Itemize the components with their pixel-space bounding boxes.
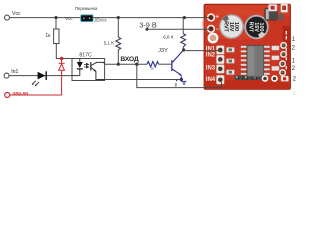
diode D1 SMD top right [265, 8, 283, 20]
svg-text:ВХОД: ВХОД [120, 56, 138, 63]
wire: second rail to PCB minus [147, 28, 211, 30]
wire: 6.8k branch from rail [182, 18, 184, 34]
red diode branch: node dot [60, 57, 64, 61]
IC U1 driver chip [241, 45, 270, 77]
svg-text:J3Y: J3Y [158, 48, 168, 54]
wire B: opto emitter to transistor emitter [105, 79, 182, 81]
svg-text:In1: In1 [11, 69, 18, 75]
node: dot at start of second rail [145, 28, 148, 31]
node: emitter junction dot [180, 78, 183, 81]
terminal Vcc [5, 15, 10, 20]
capacitor C2 electrolytic black [244, 15, 268, 39]
svg-text:2: 2 [292, 66, 296, 72]
svg-text:1к: 1к [45, 33, 51, 39]
wire: base resistor to transistor [159, 63, 172, 65]
wire: top Vcc rail [9, 17, 211, 19]
svg-text:1: 1 [292, 58, 296, 64]
wire: In1 line [9, 75, 72, 77]
wire: collector to PCB IN1 pad [184, 50, 219, 52]
node: dot 5.1k on wire A [117, 63, 120, 66]
resistor base zigzag [147, 62, 159, 67]
PCB hole centers redrawn over wires [209, 16, 213, 20]
resistor 6.8k zigzag [181, 34, 186, 48]
svg-text:JDVcc: JDVcc [94, 17, 107, 22]
terminal GND.AN red [5, 93, 10, 98]
svg-text:5,1 К: 5,1 К [104, 41, 115, 46]
svg-text:2: 2 [293, 77, 297, 83]
svg-text:IN3: IN3 [206, 66, 216, 72]
node: junction dot 5.1k on rail [117, 16, 120, 19]
PCB right edge silk marks [286, 31, 287, 69]
PCB board module [202, 4, 291, 89]
jumper block [81, 15, 93, 22]
capacitor C1 electrolytic silver [219, 14, 244, 39]
svg-text:Vcc: Vcc [65, 16, 73, 21]
PCB hole GND power [207, 25, 215, 33]
node: junction dot 1k on rail [54, 16, 57, 19]
PCB pad1 center redrawn over wire [218, 48, 223, 53]
transistor Q1 J3Y [171, 50, 183, 80]
PCB right pads column [279, 42, 287, 76]
svg-text:3-9 В: 3-9 В [139, 20, 157, 29]
svg-text:2: 2 [293, 90, 296, 95]
resistor 1k box [54, 29, 59, 44]
svg-text:2: 2 [292, 46, 296, 52]
node: collector junction dot [182, 48, 185, 51]
PCB IN pad squares [216, 46, 224, 85]
red diode symbol [59, 59, 65, 96]
svg-text:817C: 817C [79, 52, 92, 58]
opto phototransistor [90, 62, 104, 80]
PCB hole VCC [207, 13, 215, 21]
PCB SMD resistors right of IC [272, 46, 280, 71]
svg-text:+: + [215, 14, 219, 21]
svg-text:6,8 К: 6,8 К [163, 35, 174, 40]
svg-text:1: 1 [292, 37, 296, 43]
opto internal LED [72, 59, 83, 76]
svg-text:Vcc: Vcc [12, 11, 21, 17]
svg-text:IN1: IN1 [206, 46, 216, 52]
red wire GND-AN [10, 94, 62, 96]
PCB SMD resistors left of IC [226, 47, 234, 74]
optocoupler U1 817C box [72, 59, 105, 81]
wire A: opto collector line [105, 63, 147, 65]
opto emission arrows [84, 63, 89, 68]
node: dot loop start on wire A [135, 62, 138, 65]
svg-text:10016VRVT: 10016VRVT [223, 21, 239, 32]
wire: 6.8k to collector node [182, 47, 184, 50]
ground symbol [181, 79, 186, 84]
resistor 5.1k zigzag [116, 37, 121, 50]
wire: 5.1k to wire A [117, 50, 119, 65]
svg-text:GND.AN: GND.AN [12, 91, 28, 96]
PCB bottom right holes [262, 75, 289, 82]
terminal In1 [4, 73, 9, 78]
LED indicator diode [32, 71, 47, 86]
svg-text:-: - [216, 26, 218, 33]
wire: 1k bottom to red node [56, 44, 63, 59]
PCB mounting hole [208, 33, 219, 44]
svg-text:Перемычка: Перемычка [75, 6, 98, 11]
node: junction dot 6.8k on rail [183, 16, 186, 19]
svg-text:IN4: IN4 [206, 77, 216, 83]
wire: 1k branch upper [55, 18, 57, 29]
wire: node to opto anode [62, 58, 80, 60]
silkscreen box components top right [268, 3, 287, 12]
PCB bottom header bar [235, 76, 262, 80]
svg-text:10016VRVT: 10016VRVT [248, 22, 264, 33]
svg-text:IN2: IN2 [206, 53, 216, 59]
wire: 5.1k branch from rail [117, 18, 119, 37]
svg-text:1к: 1к [150, 66, 154, 70]
wire: loop down and right to PCB gnd [137, 64, 222, 87]
